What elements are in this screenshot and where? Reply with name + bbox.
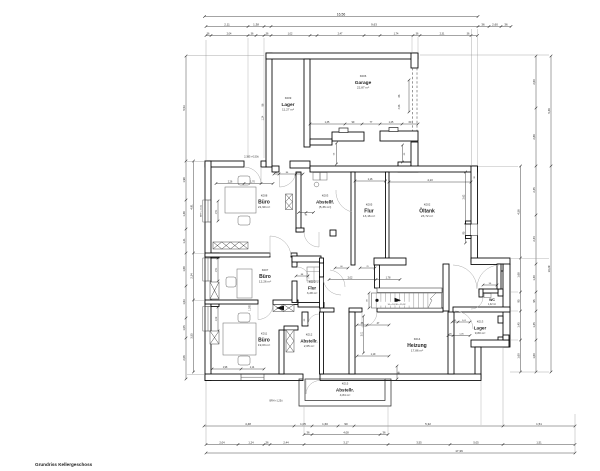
extension line left wall rows [187,161,204,163]
dimension row bottom 3 [206,444,575,446]
dimension column left 1 [185,56,187,379]
svg-text:3,28 m²: 3,28 m² [307,291,318,295]
dimension row bottom 2 [304,434,388,436]
arrow marker corridor [276,306,284,311]
extension line oeltank right to top dims [471,29,473,165]
wall upper top horizontal [266,53,418,59]
dimension row top 2 [206,26,511,28]
hall door arc 1 [453,265,477,289]
svg-text:1,21: 1,21 [182,238,186,244]
dim window k008 [217,201,219,221]
dim flur south doors [335,267,348,269]
wall k012 entry [302,312,308,326]
door protrusion [306,381,320,395]
svg-text:2,04: 2,04 [227,32,232,35]
garage door dashed lines [412,68,414,135]
svg-text:1,60: 1,60 [322,422,328,426]
dim protrusion 36 [396,366,398,379]
wall k008-k003 [296,172,301,232]
dim heizung right [448,335,470,337]
stair text [380,302,413,306]
extension line garage corner to right dims [420,54,549,56]
wall garage to main connector [411,142,418,172]
svg-text:36: 36 [481,22,485,26]
svg-text:1,05: 1,05 [182,325,186,331]
extension line right wall rows [478,166,518,168]
radiator k008 bottom [213,242,248,249]
door corridor left [323,277,341,295]
svg-text:9,63: 9,63 [371,22,377,26]
desk buero k007 [237,269,252,298]
wall stair landing left [375,265,380,288]
dimension column left 2 [193,161,195,372]
svg-text:5,05: 5,05 [473,440,479,444]
wall wc-lager bottom [471,340,509,347]
svg-text:36: 36 [307,430,310,434]
svg-text:4,13: 4,13 [427,178,433,182]
svg-text:2,62: 2,62 [462,194,465,199]
extension line garage top right [417,37,419,53]
svg-text:13,16 m²: 13,16 m² [363,214,375,218]
svg-text:3,17: 3,17 [343,440,349,444]
dim window k007 [217,258,219,281]
wall flur-small top [292,256,321,262]
svg-text:3,55: 3,55 [189,333,193,339]
pier flur left [330,230,336,236]
svg-text:95: 95 [532,299,536,302]
svg-text:1,78: 1,78 [386,276,391,279]
svg-text:1,74: 1,74 [394,32,399,35]
dim heizung vertical [363,316,365,353]
svg-text:1,02: 1,02 [288,32,293,35]
wall bump lager bottom right [503,335,509,340]
svg-text:10,29: 10,29 [547,265,551,272]
wall flur k005 right / oeltank left [386,172,390,262]
pilaster right 4 [498,337,503,344]
chair k011 bottom [238,356,250,365]
extension line door jamb [247,38,249,158]
svg-text:1,63: 1,63 [182,299,186,305]
radiator corridor [273,305,294,312]
svg-text:2,34: 2,34 [189,273,193,279]
door corridor heizung [330,270,345,287]
door heizung [362,312,377,327]
svg-text:95: 95 [516,299,520,302]
svg-text:1,51: 1,51 [216,267,218,272]
dim oeltank vertical [465,172,467,243]
svg-text:K012: K012 [306,333,313,337]
stair dim left [368,293,370,308]
door lager k013 [455,311,473,329]
chair k008 bottom [238,216,250,225]
stairs [372,293,442,308]
svg-text:1,60: 1,60 [532,353,536,359]
svg-text:K002: K002 [424,203,431,207]
svg-text:Lager: Lager [474,326,487,331]
wall abstell k003 / flur k005 left [351,172,355,265]
svg-text:4,06: 4,06 [398,104,401,109]
svg-text:2,65 m²: 2,65 m² [304,344,315,348]
door k008 [270,236,291,256]
dimension row top 1 [205,16,479,18]
svg-text:1,68: 1,68 [516,272,520,278]
shaft k012 [286,330,294,352]
extension line top left corner [186,55,264,57]
svg-text:22,87 m²: 22,87 m² [357,86,369,90]
svg-text:2,01: 2,01 [361,331,363,336]
wall k007 bottom [205,300,258,304]
wall step right [471,258,510,265]
svg-text:36: 36 [504,22,508,26]
svg-text:10 x 18,38 x 25,92: 10 x 18,38 x 25,92 [388,304,407,306]
dim oeltank horizontal [389,181,471,183]
svg-text:1,45: 1,45 [516,322,520,328]
svg-text:36: 36 [266,440,269,444]
svg-text:Abstellr.: Abstellr. [336,388,354,393]
door k007-flur [297,267,309,279]
svg-text:BRH +1,51ü: BRH +1,51ü [201,204,203,217]
wall garage bottom right segment [380,131,418,141]
svg-text:1,60: 1,60 [516,353,520,359]
svg-text:5,53: 5,53 [182,105,186,111]
wall garage jog [310,139,332,145]
wall main bottom [205,374,303,381]
pier k007 top [211,253,219,258]
wall k008-k007 horizontal [205,253,270,257]
dim k007 door [296,275,308,277]
svg-text:4,48: 4,48 [245,422,251,426]
svg-text:2,06: 2,06 [182,355,186,361]
svg-text:9,80 m²: 9,80 m² [475,331,486,335]
svg-text:1,19: 1,19 [371,353,376,356]
svg-text:1,09: 1,09 [216,316,218,321]
svg-text:1,38: 1,38 [253,22,259,26]
dim window k011 [217,307,219,331]
radiator k008 right [286,194,293,210]
wall garage bottom left segment [332,132,364,141]
window left wall k007 [206,258,211,281]
garage bottom step right [389,128,398,132]
dim k008 door top [216,183,273,185]
fixture wc basin [484,294,491,298]
svg-text:Flur: Flur [308,286,317,291]
svg-text:K014: K014 [414,337,421,341]
door flur south jambs [354,258,356,265]
svg-text:4,56: 4,56 [516,209,520,215]
svg-text:2,31: 2,31 [440,32,445,35]
svg-text:12,26 m²: 12,26 m² [259,280,271,284]
pier main top right [398,162,411,172]
dim flur top [355,180,386,182]
wall under lager [272,166,279,172]
chair k011 top [238,313,250,322]
svg-text:1,40: 1,40 [532,275,536,281]
svg-text:Grundriss Kellergeschoss: Grundriss Kellergeschoss [35,462,93,467]
svg-text:2,44: 2,44 [532,236,536,242]
pilaster right 2 [498,289,503,296]
svg-text:K015: K015 [342,382,349,386]
svg-text:K005: K005 [366,203,373,207]
svg-text:1,05: 1,05 [300,422,306,426]
stair arrow [395,298,402,303]
wall main top-left [205,161,244,167]
dim corridor stairs [329,279,400,281]
svg-text:1,98: 1,98 [223,367,228,369]
svg-text:5,32: 5,32 [425,422,431,426]
dimension column right 1 [520,166,522,372]
wall wc top [479,289,498,293]
extension line bottom right [502,348,504,425]
pilaster right 3 [498,316,503,323]
svg-text:2,26: 2,26 [228,181,233,183]
wall k007 right [292,257,297,267]
svg-text:K011: K011 [261,332,268,336]
svg-text:1,45: 1,45 [532,322,536,328]
svg-text:2,45: 2,45 [532,187,536,193]
svg-text:4,91: 4,91 [189,204,193,210]
door lager south [280,172,297,187]
svg-text:K007: K007 [262,268,269,272]
dimension row bottom 1 [204,425,575,427]
stair dot [375,299,378,302]
svg-text:1,98: 1,98 [182,177,186,183]
hall door arc 2 [477,265,499,288]
svg-text:4,08: 4,08 [343,430,349,434]
svg-text:3,55: 3,55 [416,440,422,444]
svg-text:Abstellr.: Abstellr. [300,339,317,344]
window left wall k011 [206,307,211,332]
door k011 [258,305,273,320]
wall flur-small right / central [320,262,324,277]
dim k003 door [299,212,314,214]
svg-text:1,24: 1,24 [248,440,254,444]
svg-text:K009: K009 [285,96,292,100]
dimension row top 3 [206,35,478,37]
wall stairhall right [443,264,449,311]
protrusion outline [299,379,391,406]
svg-text:90: 90 [344,422,348,426]
svg-text:1,51: 1,51 [536,440,542,444]
garage bottom step left [339,128,348,133]
dimension column right 3 [550,56,552,372]
extension line left wall to top dims [205,40,207,160]
dim heizung interior 2 [357,355,389,357]
pilaster right 1 [498,264,503,271]
wall flur-small bottom [298,303,324,308]
svg-text:1,51: 1,51 [216,209,218,214]
svg-text:2,60: 2,60 [532,79,536,85]
svg-text:23,72 m²: 23,72 m² [421,214,433,218]
svg-text:5,49: 5,49 [547,108,551,114]
wall upper-left vertical [266,53,272,167]
svg-text:21,90 m²: 21,90 m² [258,205,270,209]
svg-text:19,03 m²: 19,03 m² [258,343,270,347]
wall bottom-right vertical [475,347,481,379]
svg-text:2,385 +0,50ü: 2,385 +0,50ü [244,156,259,159]
window left wall k008 [206,200,211,222]
dim strip between garage and main [402,145,404,162]
wall wc-lager row [453,307,510,312]
wall k012 left [279,330,284,374]
svg-text:16,56: 16,56 [337,12,346,16]
dimension row bottom 4 [206,452,575,454]
svg-text:17,36: 17,36 [455,449,463,453]
protrusion inner room [305,379,385,401]
wall heizung left [349,312,355,374]
dim garage right rotated [408,80,410,112]
door wc [471,297,483,309]
wall k012 top [284,326,298,330]
svg-text:11,27 m²: 11,27 m² [282,108,294,112]
svg-text:Abstellf.: Abstellf. [316,199,334,204]
dim garage bottom [310,123,418,125]
svg-text:BRH +1,25ü: BRH +1,25ü [269,400,283,403]
svg-text:17,86 m²: 17,86 m² [411,349,423,353]
extension line protrusion bottom [303,407,305,434]
svg-text:1,68: 1,68 [182,266,186,272]
svg-text:1,35: 1,35 [325,121,330,124]
svg-text:K008: K008 [261,193,268,197]
door k003 south [304,232,319,247]
dim heizung interior 1 [357,324,389,326]
extension line bottom left [205,381,207,444]
stairs landing bar [377,288,442,293]
wall flur bottom [374,258,406,265]
dim lager k013 [452,321,470,323]
svg-text:(5,36 m²): (5,36 m²) [319,205,332,209]
svg-text:2,02: 2,02 [348,276,353,279]
svg-text:1,48: 1,48 [182,211,186,217]
door k012 [308,314,319,325]
oeltank right door [471,224,478,236]
wall main left vertical [205,161,211,381]
wall heizung right [448,312,454,374]
chair k008 top [238,176,250,185]
radiator k011 left [210,331,219,344]
svg-text:1,70: 1,70 [250,181,255,183]
dimension column right 2 [535,56,537,372]
dim lager door row [274,173,303,175]
fixture flur small [307,267,321,281]
dim k011 bottom interior [212,368,264,370]
pier k011 top [211,302,219,307]
door k003-flur [336,190,352,212]
window bottom buero [241,375,264,380]
svg-text:K006: K006 [360,74,367,78]
wall wc left [479,289,483,297]
dim wc [483,284,497,286]
wall garage top-right corner [411,53,418,68]
desk buero k008 [225,187,256,213]
wall right lower vertical [503,264,510,347]
svg-text:1,14: 1,14 [250,367,255,369]
svg-text:K003: K003 [322,193,329,197]
wall oeltank right [471,166,478,262]
desk buero k011 [223,323,256,355]
svg-text:1,51: 1,51 [536,422,542,426]
oeltank niche jambs [466,221,472,224]
wall k003 bottom [296,228,304,232]
svg-text:2,60: 2,60 [492,22,498,26]
entrance door top-left [261,161,266,167]
svg-text:4,84 m²: 4,84 m² [340,393,351,397]
wall main top-right [290,161,310,168]
svg-text:K010: K010 [309,280,316,284]
wall lager-garage divider [304,59,310,147]
svg-text:2,44: 2,44 [283,440,289,444]
svg-text:1,25: 1,25 [389,121,394,124]
chair k007 [226,277,236,287]
svg-text:1,32 m²: 1,32 m² [488,303,496,306]
svg-text:2,47: 2,47 [338,32,343,35]
wall heizung top [320,308,334,312]
dim strip left [336,143,338,164]
wall wc duct [497,264,501,289]
radiator k007 left [210,282,219,299]
svg-text:1,385: 1,385 [250,304,252,310]
svg-text:1,16: 1,16 [368,178,373,181]
svg-text:WC: WC [489,298,495,302]
svg-text:2,04: 2,04 [219,440,225,444]
svg-text:36: 36 [383,430,386,434]
svg-text:2,11: 2,11 [224,22,230,26]
svg-text:K013: K013 [477,320,484,324]
fixture abstellraum k003 [313,173,320,181]
stair break line [428,293,436,308]
svg-text:2,89: 2,89 [532,134,536,140]
